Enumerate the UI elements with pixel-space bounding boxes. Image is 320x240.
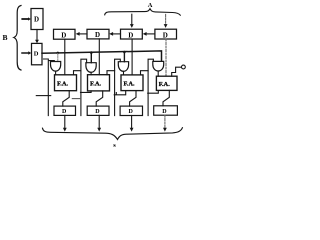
AND gate G3 (118, 62, 128, 72)
terminal carry-in 0 (182, 65, 186, 69)
wire FA1 carry-in hook (74, 71, 81, 75)
wire bar b2 (114, 91, 126, 95)
register D A1 (54, 29, 76, 39)
node bus tap 2 (90, 51, 93, 54)
wire boundary feed b2 (115, 59, 121, 115)
wire G4 output (157, 71, 159, 76)
svg-text:D: D (129, 109, 134, 115)
wire A3 bit line (131, 39, 133, 75)
wire bus drop to gate 1 (faint) (57, 54, 59, 62)
wire FA1 sum to D S1 (63, 91, 69, 106)
svg-text:D: D (61, 31, 66, 39)
wire A4 to A3 arrow (143, 32, 155, 36)
wire FA3 carry-in hook (141, 71, 149, 75)
svg-text:D: D (163, 31, 168, 39)
full adder FA3 (121, 75, 143, 91)
svg-text:B: B (3, 33, 8, 42)
AND gate G1 (51, 62, 61, 72)
wire B input b0 arrow (22, 18, 28, 20)
svg-text:D: D (95, 109, 100, 115)
wire FA2 sum to D S2 (96, 91, 103, 106)
wire jog b1 (72, 98, 80, 100)
register D A4 (155, 29, 177, 39)
full adder FA1 (55, 75, 77, 91)
brace S (under-brace) (43, 128, 183, 140)
svg-text:D: D (34, 50, 39, 57)
wire A arrow into D A3 (130, 14, 134, 28)
wire A3 to A2 arrow (109, 32, 120, 36)
wire G3 output (123, 71, 125, 75)
wire G1 output (55, 71, 57, 75)
full adder FA4 (156, 76, 177, 90)
wire S1 output arrow (63, 115, 67, 131)
wire boundary feed b1 (81, 59, 87, 115)
brace A (over-brace) (105, 9, 181, 16)
svg-text:A: A (148, 2, 153, 9)
svg-text:D: D (162, 109, 167, 115)
register D B2 (32, 43, 43, 64)
wire A arrow into D A4 (dashed) (164, 14, 168, 28)
wire S4 output arrow (dashed) (163, 115, 167, 131)
wire bar b3 (148, 91, 159, 93)
svg-text:F.A.: F.A. (57, 81, 69, 88)
wire FA3 sum to D S3 (130, 91, 136, 107)
wire S2 output arrow (97, 115, 101, 131)
svg-text:F.A.: F.A. (124, 81, 136, 88)
wire FA4 sum to D S4 (163, 90, 169, 105)
register D S4 (154, 106, 178, 115)
register D A3 (121, 29, 143, 39)
wire B input b1 arrow (22, 52, 29, 54)
wire A2 to A1 arrow (76, 32, 87, 36)
wire boundary feed b0 (44, 59, 55, 116)
wire carry-in to FA4 (172, 67, 182, 76)
wire boundary feed b3 (148, 59, 153, 115)
wire bar b1 (81, 91, 92, 93)
wire bus drop to gate 2 (90, 53, 92, 63)
svg-text:D: D (95, 31, 100, 39)
register D B1 (31, 9, 43, 30)
svg-text:s: s (113, 142, 116, 149)
wire A1 bit line (64, 39, 66, 74)
AND gate G2 (86, 63, 96, 73)
wire FA2 carry-in hook (107, 71, 115, 75)
svg-text:D: D (128, 31, 133, 39)
wire A2 bit line (98, 39, 100, 75)
wire bus drop to gate 3 (123, 52, 125, 62)
wire S3 output arrow (130, 116, 134, 132)
register D S1 (54, 106, 76, 115)
wire G2 output (90, 72, 92, 74)
brace B (left curly brace) (14, 6, 21, 71)
AND gate G4 (153, 61, 164, 71)
wire serial B bus (42, 51, 162, 61)
wire bar b0 (36, 95, 50, 97)
svg-text:D: D (34, 16, 39, 24)
node bus tap 1 (57, 52, 60, 55)
svg-text:D: D (62, 109, 67, 115)
node bus tap 3 (123, 51, 126, 54)
register D A2 (87, 29, 109, 39)
svg-text:F.A.: F.A. (159, 81, 171, 88)
full adder FA2 (88, 75, 110, 91)
svg-text:F.A.: F.A. (90, 81, 102, 88)
wire A4 bit line (dashed) (165, 39, 167, 76)
register D S2 (87, 106, 109, 115)
register D S3 (120, 106, 142, 115)
wire B1 to B2 arrow (35, 30, 39, 44)
